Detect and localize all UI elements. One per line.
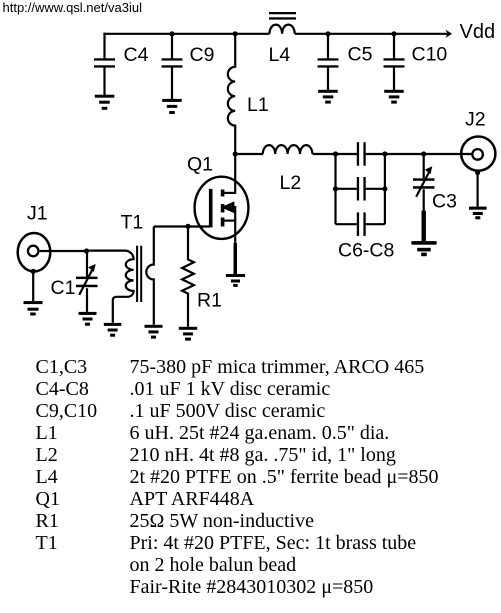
label Q1 [187,154,213,176]
svg-text:J1: J1 [27,203,48,225]
node junction J1 shield [31,269,36,274]
parts list row: C1,C3 [36,356,425,378]
wire J2 shield to ground [477,173,479,207]
svg-text:L1: L1 [36,422,58,444]
svg-text:C4: C4 [124,44,149,66]
svg-text:Q1: Q1 [187,154,213,176]
ground (C10) [384,90,404,104]
resistor R1 [182,226,194,326]
svg-text:210 nH. 4t #8 ga. .75" id, 1": 210 nH. 4t #8 ga. .75" id, 1" long [130,444,396,466]
ground (J2) [469,207,487,220]
node junction C3 [421,151,426,156]
node junction L1/rail [233,31,238,36]
parts list row: C9,C10 [36,400,326,422]
capacitor C5 leads [327,34,329,91]
ground (Q1 source) [226,274,245,287]
node junction C6-C8 left mid [333,186,338,191]
svg-text:C1: C1 [51,277,76,299]
capacitor C10 plates [384,58,405,67]
node junction C6-C8 right top [382,151,387,156]
ground (J1) [24,301,43,315]
capacitor C4 leads [103,33,105,96]
parts list row: R1 [36,510,315,532]
ground (C4) [95,95,115,110]
label L1 [247,94,269,116]
node junction C6-C8 right mid [382,186,387,191]
svg-text:25Ω 5W non-inductive: 25Ω 5W non-inductive [130,510,315,532]
parts list row: Q1 [36,488,255,510]
wire T1 secondary to gate node to Q1 gate [154,225,210,227]
net label Vdd [460,21,496,43]
label C9 [190,44,215,66]
svg-text:C6-C8: C6-C8 [338,240,394,262]
transformer T1 primary winding [113,251,134,323]
ground (C9) [162,99,182,114]
label C1 [51,277,76,299]
wire C1 node to T1 primary [87,250,126,252]
capacitor C6 (top) [336,142,385,166]
connector J1 [18,233,51,271]
parts list row: T1 [36,532,417,554]
node junction drain (L1/Q1/L2) [233,151,238,156]
node junction C1 [84,248,89,253]
capacitor C9 leads [171,34,173,100]
label J1 [27,203,48,225]
svg-text:APT ARF448A: APT ARF448A [130,488,255,510]
label C5 [348,44,373,66]
capacitor C7 (middle) [336,177,385,201]
transistor Q1 source connection [224,220,236,222]
wire C6-C8 left column [334,154,336,224]
node junction C9/rail [169,31,174,36]
transformer T1 core bars [136,246,142,302]
svg-text:.1 uF 500V disc ceramic: .1 uF 500V disc ceramic [130,400,326,422]
wire drain vertical [234,154,236,194]
svg-text:L1: L1 [247,94,269,116]
parts list row: T1 continuation [130,554,297,576]
svg-text:L2: L2 [280,172,302,194]
svg-text:R1: R1 [36,510,59,532]
label C10 [412,44,448,66]
svg-text:C4-C8: C4-C8 [36,378,89,400]
node junction J2 shield [475,170,480,175]
node junction gate/R1 [185,224,190,229]
ground (C1) [79,312,97,326]
node junction C10/rail [391,31,396,36]
label C4 [124,44,149,66]
svg-text:.01 uF 1 kV disc ceramic: .01 uF 1 kV disc ceramic [130,378,331,400]
wire J1 shield to ground [32,271,34,301]
wire L2 to C6-C8 [313,153,336,155]
svg-text:C1,C3: C1,C3 [36,356,88,378]
svg-text:L4: L4 [36,466,58,488]
capacitor C10 leads [393,34,395,91]
transistor Q1 body arrow [221,201,235,220]
wire Q1 source to ground [234,221,238,275]
ground (T1 primary) [104,323,122,337]
ground (C3) [411,241,436,256]
label L4 [269,44,291,66]
svg-text:L4: L4 [269,44,291,66]
capacitor C4 plates [94,58,115,67]
parts list row: L1 [36,422,390,444]
ground (C5) [318,90,338,104]
wire C6-C8 to C3 node to J2 [385,153,471,155]
capacitor C1 (trimmer) [76,251,98,312]
wire C6-C8 right column [384,154,386,224]
label J2 [465,109,486,131]
svg-text:6 uH. 25t #24 ga.enam. 0.5" di: 6 uH. 25t #24 ga.enam. 0.5" dia. [130,422,390,444]
capacitor C5 plates [318,58,339,67]
capacitor C3 (trimmer) [413,154,435,241]
svg-text:http://www.qsl.net/va3iul: http://www.qsl.net/va3iul [3,0,143,15]
wire J1 to C1 node [40,250,87,252]
label C3 [432,191,457,213]
svg-text:Vdd: Vdd [460,21,496,43]
inductor L1 [228,34,235,154]
ground (T1 secondary) [145,325,163,339]
inductor L2 [263,145,313,154]
transistor Q1 body circle [195,177,249,239]
svg-text:75-380 pF mica trimmer, ARCO 4: 75-380 pF mica trimmer, ARCO 465 [130,356,425,378]
svg-text:2t #20 PTFE on .5" ferrite bea: 2t #20 PTFE on .5" ferrite bead μ=850 [130,466,439,488]
node junction C6-C8 left top [333,151,338,156]
transistor Q1 channel segments [221,190,225,227]
parts list row: C4-C8 [36,378,331,400]
svg-text:C9: C9 [190,44,215,66]
transformer T1 secondary winding [146,227,153,325]
wire drain node to L2 [235,153,263,155]
ground (R1) [179,327,197,341]
inductor L4 winding [270,25,295,34]
label R1 [197,290,222,312]
label T1 [121,212,144,234]
svg-text:T1: T1 [36,532,58,554]
Vdd arrowhead [445,30,452,38]
svg-text:Fair-Rite #2843010302 μ=850: Fair-Rite #2843010302 μ=850 [130,576,374,598]
svg-text:C10: C10 [412,44,448,66]
transistor Q1 drain connection [224,192,236,194]
parts list row: L4 [36,466,439,488]
svg-text:R1: R1 [197,290,222,312]
svg-text:J2: J2 [465,109,486,131]
inductor L4 ferrite-bead core bars [269,12,296,20]
parts list row: T1 continuation [130,576,374,598]
node junction C5/rail [325,31,330,36]
label C6-C8 [338,240,394,262]
svg-text:Pri: 4t #20 PTFE, Sec: 1t bras: Pri: 4t #20 PTFE, Sec: 1t brass tube [130,532,417,554]
top supply rail wire [103,33,447,35]
svg-text:C5: C5 [348,44,373,66]
transistor Q1 gate bar [209,189,213,228]
svg-text:L2: L2 [36,444,58,466]
svg-text:C9,C10: C9,C10 [36,400,98,422]
svg-text:T1: T1 [121,212,144,234]
svg-text:C3: C3 [432,191,457,213]
parts list row: L2 [36,444,396,466]
capacitor C9 plates [162,58,183,67]
capacitor C8 (bottom) [336,212,385,236]
title URL text [3,0,143,15]
svg-text:on 2 hole balun bead: on 2 hole balun bead [130,554,297,576]
label L2 [280,172,302,194]
connector J2 [461,137,495,171]
svg-text:Q1: Q1 [36,488,60,510]
